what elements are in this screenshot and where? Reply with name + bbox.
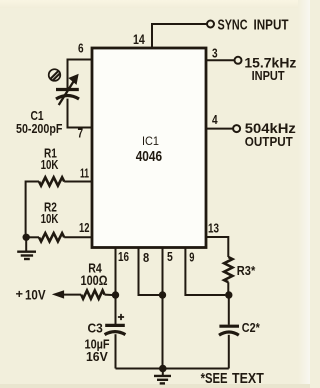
wire R3 bottom to junction bbox=[227, 282, 229, 295]
node R1-R2 junction bbox=[23, 234, 30, 241]
svg-text:7: 7 bbox=[78, 125, 84, 140]
svg-text:50-200pF: 50-200pF bbox=[16, 121, 62, 136]
wire C2 to bottom rail bbox=[228, 335, 230, 369]
svg-text:5: 5 bbox=[167, 249, 173, 264]
resistor R4 bbox=[81, 290, 104, 298]
svg-text:3: 3 bbox=[212, 45, 218, 60]
wire to ground 2 bbox=[162, 369, 164, 376]
wire pin 4 bbox=[206, 128, 233, 130]
screwdriver adjust symbol bbox=[49, 69, 61, 81]
wire pin 8 bbox=[139, 248, 160, 295]
svg-text:10K: 10K bbox=[41, 157, 59, 172]
capacitor C3 polarity plus bbox=[118, 314, 124, 320]
svg-text:11: 11 bbox=[80, 165, 89, 180]
wire pin 3 bbox=[206, 59, 234, 61]
svg-text:16: 16 bbox=[118, 249, 129, 264]
svg-text:10V: 10V bbox=[25, 287, 46, 303]
node R4-C3 junction bbox=[112, 291, 119, 298]
resistor R2 bbox=[39, 233, 64, 241]
wire R1 left to junction column bbox=[26, 182, 39, 238]
node R3-C2 junction bbox=[225, 291, 232, 298]
terminal 15.7kHz input bbox=[235, 57, 242, 64]
terminal 504kHz output bbox=[233, 125, 240, 132]
resistor R3 bbox=[224, 257, 232, 282]
svg-text:*SEE: *SEE bbox=[201, 371, 228, 387]
wire pin 5 bbox=[162, 248, 164, 369]
wire pin 9 bbox=[185, 248, 225, 295]
ground (bottom) bbox=[154, 376, 171, 384]
wire R2 left to ground bbox=[27, 236, 39, 238]
wire junction to C2 bbox=[228, 295, 230, 325]
capacitor C1 trimmer plates bbox=[56, 90, 79, 100]
IC U1 body bbox=[92, 48, 206, 248]
wire R4 left bbox=[63, 294, 81, 296]
svg-text:8: 8 bbox=[143, 250, 149, 265]
+10V arrow bbox=[53, 291, 63, 298]
terminal SYNC INPUT bbox=[207, 21, 214, 28]
svg-text:R3*: R3* bbox=[237, 263, 256, 278]
svg-text:SYNC: SYNC bbox=[218, 17, 248, 33]
svg-text:6: 6 bbox=[78, 40, 84, 55]
ground (left) bbox=[17, 252, 36, 259]
wire pin 11 bbox=[64, 181, 92, 183]
trimmer arrow bbox=[59, 82, 74, 106]
wire pin 13 bbox=[206, 237, 228, 257]
wire R4 right to junction bbox=[105, 294, 113, 296]
svg-text:4: 4 bbox=[212, 112, 218, 127]
svg-text:9: 9 bbox=[189, 249, 194, 264]
svg-text:14: 14 bbox=[133, 32, 145, 47]
wire C3 to bottom rail bbox=[115, 334, 117, 368]
svg-text:12: 12 bbox=[79, 220, 90, 235]
resistor R1 bbox=[39, 177, 64, 185]
svg-text:INPUT: INPUT bbox=[252, 68, 285, 83]
svg-text:OUTPUT: OUTPUT bbox=[245, 134, 293, 149]
wire pin 12 bbox=[64, 236, 92, 238]
svg-text:INPUT: INPUT bbox=[254, 17, 289, 33]
capacitor C2 bbox=[219, 326, 239, 335]
bottom rail wire bbox=[116, 368, 229, 370]
wire pin 7 bbox=[68, 99, 93, 128]
wire pin 16 bbox=[115, 248, 117, 295]
svg-text:+: + bbox=[16, 289, 24, 301]
svg-text:C2*: C2* bbox=[242, 320, 261, 335]
svg-text:4046: 4046 bbox=[136, 148, 162, 165]
svg-text:13: 13 bbox=[208, 220, 219, 235]
node pin8-pin5 junction bbox=[159, 291, 166, 298]
svg-text:16V: 16V bbox=[86, 349, 108, 364]
wire junction to C3 bbox=[115, 295, 117, 324]
svg-text:100Ω: 100Ω bbox=[81, 273, 108, 288]
wire pin 6 bbox=[68, 60, 93, 90]
svg-text:10K: 10K bbox=[41, 211, 59, 226]
svg-text:C3: C3 bbox=[88, 321, 103, 336]
capacitor C3 bbox=[105, 325, 126, 334]
node bottom ground junction bbox=[159, 365, 167, 373]
wire pin 14 to sync terminal bbox=[152, 24, 207, 48]
wire to ground 1 bbox=[25, 237, 27, 251]
svg-text:TEXT: TEXT bbox=[232, 371, 264, 387]
svg-text:IC1: IC1 bbox=[142, 134, 159, 148]
